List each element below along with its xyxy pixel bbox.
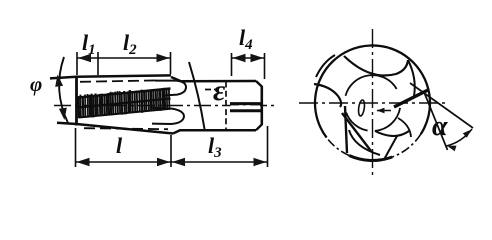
svg-text:ε: ε [213, 74, 226, 107]
svg-text:l: l [116, 133, 123, 158]
svg-text:φ: φ [30, 72, 42, 96]
